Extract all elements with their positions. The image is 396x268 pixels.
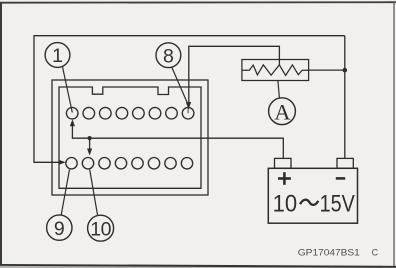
svg-text:8: 8 (163, 45, 174, 67)
pin 11 (99, 158, 110, 169)
tilde of voltage label (300, 200, 318, 205)
svg-text:A: A (274, 99, 291, 124)
pin 10 (82, 158, 93, 169)
battery body 10~15V (268, 168, 357, 223)
svg-text:10: 10 (90, 218, 111, 240)
battery positive terminal tab (275, 158, 292, 168)
arrowhead at pin 10 (pointing down) (87, 149, 92, 156)
pin 13 (132, 158, 143, 169)
pin 12 (115, 158, 126, 169)
svg-text:15V: 15V (320, 190, 355, 217)
svg-text:9: 9 (54, 218, 65, 240)
junction dot at resistor output node (343, 68, 348, 73)
wire: pin 1 / pin 10 to battery positive (72, 125, 283, 159)
wire: top bus down to battery negative (344, 36, 346, 159)
resistor R (boxed) (242, 60, 309, 81)
wire: pin 8 up and over to resistor tap (189, 46, 280, 104)
callout 9 pointer line to pin 9 (61, 170, 69, 216)
pin 16 (181, 158, 192, 169)
pin 14 (148, 158, 159, 169)
battery minus symbol (336, 177, 345, 180)
svg-text:GP17047BS1: GP17047BS1 (298, 247, 360, 257)
callout 1 pointer line to pin 1 (62, 66, 72, 112)
svg-text:C: C (372, 247, 379, 257)
svg-text:10: 10 (273, 190, 298, 217)
wire: branch down to pin 10 (89, 138, 91, 150)
callout 8 pointer line to pin 8 (172, 67, 188, 104)
arrowhead at pin 8 (186, 102, 191, 109)
connector outer housing (52, 80, 208, 195)
callout 10 pointer line to pin 10 (90, 170, 98, 216)
pin 8 (182, 107, 194, 119)
pin 2 (83, 107, 95, 119)
pin 6 (149, 107, 161, 119)
wire: resistor output to junction (309, 69, 345, 71)
callout circle 9 (47, 215, 72, 240)
callout circle 8 (156, 43, 181, 68)
pointer line resistor to circle A (278, 81, 280, 98)
battery negative terminal tab (337, 158, 353, 168)
pin 15 (165, 158, 176, 169)
battery voltage label (273, 190, 355, 217)
callout circle 10 (88, 215, 114, 241)
pin 5 (133, 107, 145, 119)
pin 3 (100, 107, 112, 119)
callout circle 1 (45, 43, 70, 68)
svg-text:1: 1 (52, 45, 63, 67)
junction dot at pin 10 branch (88, 136, 92, 140)
battery plus symbol (278, 172, 291, 185)
connector inner housing with keying notches (59, 87, 201, 188)
arrowhead at pin 1 (pointing up) (70, 119, 75, 126)
pin 1 (66, 107, 78, 119)
pin 4 (116, 107, 128, 119)
thin lead into pin 8 center (187, 108, 189, 113)
ammeter callout circle A (269, 98, 296, 125)
pin 7 (166, 107, 178, 119)
wire: pin 9 to top bus (left vertical + top horizontal) (34, 36, 345, 163)
pin 9 (66, 158, 77, 169)
arrowhead at pin 9 (59, 160, 66, 165)
